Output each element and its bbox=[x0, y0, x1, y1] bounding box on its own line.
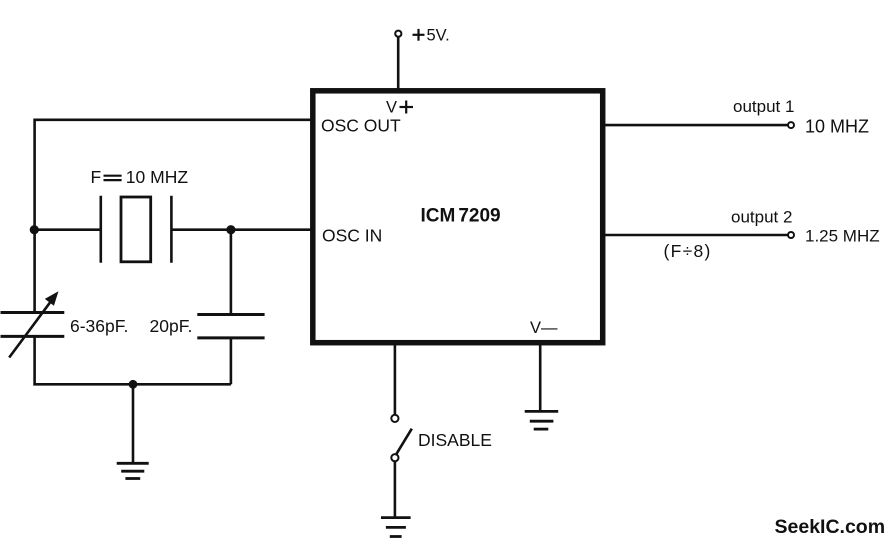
svg-text:OSC OUT: OSC OUT bbox=[321, 116, 401, 136]
terminal output 1 open circle bbox=[788, 122, 794, 128]
svg-text:OSC IN: OSC IN bbox=[322, 226, 382, 246]
wire OSC IN left segment bbox=[35, 228, 101, 231]
capacitor C1 variable arrow bbox=[9, 298, 53, 358]
wire V- pin vertical bbox=[539, 343, 542, 411]
wire V+ pin vertical bbox=[397, 37, 400, 90]
svg-text:output 1: output 1 bbox=[733, 97, 794, 116]
node junction bottom ground bbox=[129, 380, 138, 389]
wire DISABLE pin vertical bbox=[394, 343, 397, 414]
switch S1 bottom contact bbox=[391, 454, 398, 461]
svg-text:(F÷8): (F÷8) bbox=[664, 241, 712, 261]
svg-text:20pF.: 20pF. bbox=[150, 316, 193, 336]
switch S1 blade bbox=[397, 429, 412, 454]
svg-text:V—: V— bbox=[530, 319, 558, 337]
svg-text:output 2: output 2 bbox=[731, 208, 792, 227]
wire 20pF bottom lead bbox=[230, 338, 233, 384]
terminal +5V open circle bbox=[395, 31, 401, 37]
svg-text:5V.: 5V. bbox=[427, 27, 450, 45]
svg-text:6-36pF.: 6-36pF. bbox=[70, 316, 128, 336]
capacitor C1 variable top plate bbox=[1, 311, 65, 314]
switch S1 top contact bbox=[391, 415, 398, 422]
node junction left rail / OSC IN bbox=[30, 225, 39, 234]
capacitor C2 20pF bottom plate bbox=[197, 336, 264, 339]
wire left rail vertical lower bbox=[33, 336, 36, 385]
svg-text:DISABLE: DISABLE bbox=[418, 430, 492, 450]
crystal Y1 right plate bbox=[170, 196, 173, 263]
ground disable bbox=[381, 516, 411, 519]
wire OSC OUT horizontal bbox=[35, 119, 311, 122]
wire output 2 bbox=[604, 234, 788, 237]
wire OSC IN right segment bbox=[171, 228, 311, 231]
svg-text:SeekIC.com: SeekIC.com bbox=[775, 516, 886, 538]
crystal Y1 body rect bbox=[121, 197, 151, 262]
wire switch to ground bbox=[394, 461, 397, 517]
svg-text:ICM7209: ICM7209 bbox=[421, 206, 501, 227]
terminal output 2 open circle bbox=[788, 232, 794, 238]
wire output 1 bbox=[604, 124, 788, 127]
ground left bbox=[117, 462, 149, 465]
svg-text:F: F bbox=[91, 167, 102, 187]
wire left rail vertical upper bbox=[33, 119, 36, 313]
wire bottom horizontal bbox=[33, 383, 231, 386]
svg-text:10 MHZ: 10 MHZ bbox=[126, 167, 189, 187]
svg-text:1.25 MHZ: 1.25 MHZ bbox=[805, 227, 880, 246]
wire 20pF top lead bbox=[230, 230, 233, 315]
svg-text:V: V bbox=[386, 99, 397, 117]
crystal Y1 left plate bbox=[100, 196, 103, 263]
label +5V bbox=[413, 34, 425, 36]
node junction OSC IN / 20pF bbox=[226, 225, 235, 234]
capacitor C2 20pF top plate bbox=[197, 313, 264, 316]
svg-text:10 MHZ: 10 MHZ bbox=[805, 117, 869, 137]
wire ground stem left bbox=[132, 384, 135, 463]
ground V- bbox=[525, 410, 559, 413]
capacitor C1 variable bottom plate bbox=[1, 335, 65, 338]
IC U1 ICM7209 box bbox=[313, 91, 603, 343]
